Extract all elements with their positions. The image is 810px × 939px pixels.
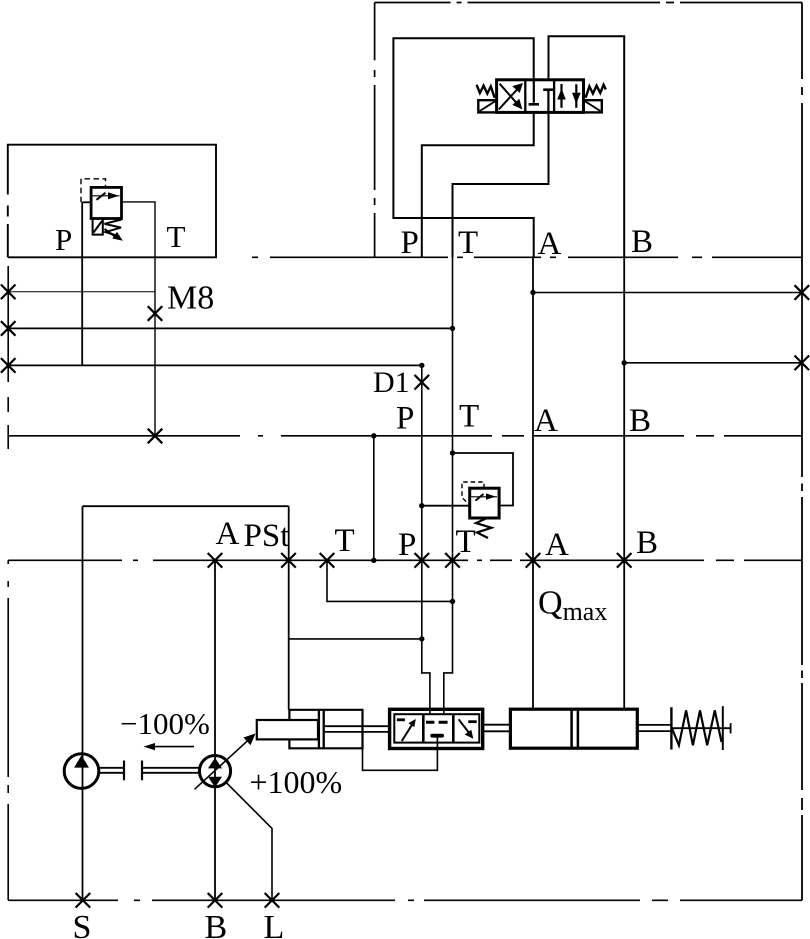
wire pump to L port: [226, 782, 272, 900]
svg-text:T: T: [167, 219, 186, 254]
orifice D1 X: [415, 375, 430, 390]
label B row3: [636, 525, 658, 561]
label B port: [205, 909, 228, 939]
pilot spool left cell: [397, 719, 416, 741]
svg-text:B: B: [629, 403, 651, 439]
channel T (valve to T port): [453, 112, 549, 257]
relief valve V1 pilot line (dashed): [81, 179, 106, 203]
svg-text:B: B: [636, 525, 658, 561]
V2 body: [470, 488, 499, 518]
wire B line: [623, 257, 625, 709]
U1 centre cell blocked ports: [529, 80, 554, 113]
actuator plunger: [257, 720, 318, 739]
pilot spool valve sleeve: [390, 709, 483, 748]
U1 right spring: [586, 85, 606, 98]
plug X right 2: [795, 356, 810, 371]
port label T: [458, 225, 478, 261]
plug X left 2: [1, 321, 16, 336]
wire PSt to P branch: [289, 636, 425, 641]
svg-text:S: S: [73, 909, 92, 939]
port label P: [55, 222, 72, 257]
port X T: [320, 553, 335, 568]
gauge line M8: [8, 291, 155, 293]
svg-text:T: T: [335, 523, 355, 559]
port X B: [208, 893, 223, 908]
drill line A to right edge: [533, 292, 802, 294]
svg-text:T: T: [459, 399, 479, 435]
bottom boundary: [8, 899, 802, 901]
wire A port through pump: [214, 560, 216, 900]
wire P line to pilot valve: [422, 365, 430, 713]
rod main spool to spring: [637, 725, 671, 731]
U1 left solenoid: [478, 100, 496, 112]
left boundary of pilot-valve plate: [374, 3, 376, 258]
svg-text:Qmax: Qmax: [538, 585, 607, 627]
4/3 directional valve U1 body: [497, 80, 584, 113]
interface line 1 (y=257): [252, 256, 802, 258]
label P row3: [398, 527, 416, 563]
svg-text:M8: M8: [167, 279, 214, 316]
svg-text:T: T: [456, 524, 476, 560]
label T2 row3: [456, 524, 476, 560]
U1 right cell parallel arrows: [557, 84, 580, 108]
channel P (valve to P port): [422, 112, 534, 257]
suction header: [83, 505, 289, 507]
port X A: [208, 553, 223, 568]
label Qmax: [538, 585, 607, 627]
svg-text:P: P: [396, 401, 414, 437]
right boundary of stack: [801, 3, 803, 901]
svg-text:P: P: [401, 225, 419, 261]
actuator frame: [289, 710, 362, 749]
svg-text:−100%: −100%: [120, 706, 210, 741]
svg-text:+100%: +100%: [250, 764, 343, 800]
svg-text:A: A: [216, 516, 240, 552]
relief valve V1 adjustment arrow: [105, 229, 123, 241]
label M8: [167, 279, 214, 316]
main spool piston plates: [572, 709, 578, 748]
svg-text:P: P: [55, 222, 72, 257]
svg-text:A: A: [538, 226, 562, 262]
port label A: [538, 226, 562, 262]
port X S: [76, 893, 91, 908]
label P row2: [396, 401, 414, 437]
channel A (valve to A port): [393, 38, 533, 257]
wire V2 outlet to T: [450, 450, 513, 505]
junction dot P line: [419, 363, 424, 368]
port label T: [167, 219, 186, 254]
wire P to V1: [82, 201, 91, 203]
wire P to V2: [419, 503, 470, 508]
svg-text:B: B: [205, 909, 228, 939]
pump P1 (pilot pump): [64, 754, 99, 789]
arrow -100%: [144, 743, 195, 750]
interface line 3 (y=558): [8, 559, 802, 561]
left boundary pump block: [7, 560, 9, 900]
port X T2: [445, 553, 460, 568]
wire PSt line: [288, 506, 290, 710]
actuator piston plates: [319, 710, 324, 749]
label PSt: [244, 518, 290, 554]
left boundary middle plate: [7, 266, 9, 449]
svg-text:A: A: [545, 527, 569, 563]
V2 spring: [476, 519, 492, 539]
port label P: [401, 225, 419, 261]
port label B: [631, 224, 653, 260]
U1 right solenoid: [584, 100, 602, 112]
top boundary of pilot-valve plate: [375, 2, 802, 4]
rod pilot to main spool: [483, 725, 511, 732]
svg-text:PSt: PSt: [244, 518, 290, 554]
return spring: [671, 706, 730, 750]
relief valve V1 drain box: [93, 219, 103, 235]
port X L: [265, 893, 280, 908]
channel B (valve to B port): [549, 36, 625, 257]
label T row3: [335, 523, 355, 559]
port X A2: [526, 553, 541, 568]
wire A line: [532, 257, 534, 709]
label -100%: [120, 706, 210, 741]
plug X left 1: [1, 285, 16, 300]
relief valve V1 body: [91, 187, 121, 218]
label L port: [264, 909, 285, 939]
drill line 3: [8, 364, 422, 366]
svg-text:L: L: [264, 909, 285, 939]
junction dot B line: [622, 360, 627, 365]
U1 left cell crossed arrows: [499, 83, 523, 109]
wire S line: [82, 506, 84, 900]
junction dot A line: [530, 290, 535, 295]
label S: [73, 909, 92, 939]
actuator rod: [325, 726, 390, 732]
main spool body: [510, 709, 637, 748]
feedback linkage: [363, 738, 438, 771]
port X P: [415, 553, 430, 568]
plug X right 1: [795, 285, 810, 300]
pilot spool right cell: [459, 719, 477, 739]
V2 pilot line (dashed): [462, 482, 484, 505]
shaft coupling: [100, 761, 200, 781]
V2 flow arrow: [471, 493, 497, 500]
label D1: [373, 366, 410, 399]
label +100%: [250, 764, 343, 800]
pilot spool valve body: [394, 714, 479, 742]
relief valve V1 flow arrow: [93, 192, 120, 200]
label A row2: [534, 403, 558, 439]
label T row2: [459, 399, 479, 435]
svg-text:B: B: [631, 224, 653, 260]
svg-text:T: T: [458, 225, 478, 261]
interface line 2 (y=436): [8, 435, 802, 437]
svg-text:D1: D1: [373, 366, 410, 399]
pump displacement arrow: [195, 734, 256, 790]
pump P2 (variable pump): [199, 756, 230, 788]
manifold body outline: [6, 145, 216, 258]
wire T line to pilot valve: [444, 184, 453, 714]
label B row2: [629, 403, 651, 439]
svg-text:A: A: [534, 403, 558, 439]
label A row3: [216, 516, 240, 552]
port X B: [617, 553, 632, 568]
svg-text:P: P: [398, 527, 416, 563]
plug X on T line at interface 2: [148, 429, 163, 444]
gauge port M8 X: [148, 306, 163, 321]
label A2 row3: [545, 527, 569, 563]
wire T branch: [327, 560, 455, 604]
U1 left spring: [477, 85, 495, 98]
relief valve V1 spring: [105, 220, 122, 237]
wire V1 outlet to T: [122, 202, 156, 436]
drill line 2: [8, 327, 452, 329]
plug X left 3: [1, 358, 16, 373]
pilot spool centre cell: [426, 722, 448, 735]
drill line B to right edge: [624, 362, 802, 364]
pilot feed wire between interfaces: [371, 433, 376, 563]
port X PSt: [281, 553, 296, 568]
wire P port line down: [81, 202, 83, 365]
junction dot T line: [450, 326, 455, 331]
